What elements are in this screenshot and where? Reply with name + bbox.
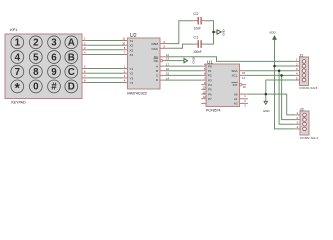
wire KBM to C2 (169, 21, 194, 44)
U1 left pin numbers (203, 62, 207, 99)
svg-text:P3: P3 (208, 78, 212, 82)
svg-text:MM74C922: MM74C922 (127, 90, 147, 95)
svg-text:9: 9 (51, 67, 57, 78)
wire U2 D to U1 P3 (165, 79, 202, 81)
svg-text:P2: P2 (208, 74, 212, 78)
svg-text:GND: GND (263, 109, 269, 113)
svg-text:D: D (68, 82, 75, 93)
wire SCL branch down to J2 pin3 (282, 75, 296, 119)
J1 pin circles (302, 60, 306, 82)
wire VDD rail down to J2 pin1 (275, 39, 296, 128)
svg-text:KBM: KBM (151, 42, 158, 46)
node VDD/J1 pin2 (273, 65, 276, 68)
ground symbol (263, 101, 269, 113)
U2 left pin stubs (123, 41, 128, 83)
svg-text:INT: INT (233, 83, 238, 87)
svg-text:P4: P4 (208, 83, 212, 87)
svg-text:6: 6 (51, 52, 57, 63)
svg-text:OSC: OSC (151, 47, 158, 51)
svg-text:VDD: VDD (269, 31, 276, 35)
svg-text:10nF: 10nF (194, 27, 201, 31)
svg-text:10: 10 (122, 41, 125, 45)
svg-text:P6: P6 (208, 92, 212, 96)
J2 pin stubs (295, 115, 300, 129)
svg-text:8: 8 (33, 67, 39, 78)
svg-text:7: 7 (15, 67, 21, 78)
node cap junction (212, 31, 215, 34)
wire keypad row3 to U2 X3 (88, 49, 123, 51)
svg-text:A: A (156, 64, 158, 68)
svg-text:3: 3 (51, 38, 57, 49)
svg-text:Y3: Y3 (130, 76, 134, 80)
svg-text:C: C (68, 67, 75, 78)
svg-text:B: B (68, 52, 75, 63)
svg-text:X2: X2 (130, 44, 134, 48)
wire keypad col2 to U2 Y2 (88, 72, 123, 74)
wire GND net: J1 pin5 / A0 / J2 pin4 (248, 80, 295, 115)
U2 pin name labels (130, 39, 134, 85)
wire U2 A to U1 P0 (165, 66, 202, 80)
wire U2 C to U1 P2 (165, 74, 202, 76)
J2 pin numbers (297, 111, 299, 129)
svg-text:A2: A2 (234, 102, 238, 106)
U1 left pin stubs (201, 66, 206, 103)
wire DA to J1 pin1 (167, 57, 295, 62)
wire keypad col3 to U2 Y3 (88, 77, 123, 79)
svg-text:2: 2 (33, 38, 39, 49)
wire keypad col4 to U2 Y4 (88, 82, 123, 84)
wire SDA branch down to J2 pin2 (279, 71, 295, 125)
connector J2 (300, 107, 319, 140)
svg-text:13: 13 (243, 85, 246, 89)
svg-text:P7: P7 (208, 97, 212, 101)
U1 INT overline (232, 82, 238, 84)
svg-text:PCF8574: PCF8574 (206, 108, 221, 112)
svg-text:B: B (156, 69, 158, 73)
svg-text:A: A (68, 38, 75, 49)
svg-text:1: 1 (15, 38, 21, 49)
keypad pin stubs group1 (pins 1-4) (82, 41, 88, 55)
svg-text:15: 15 (242, 71, 245, 75)
U1 pin name labels (208, 64, 212, 101)
svg-text:*: * (15, 81, 21, 96)
U2 left pin numbers 11,10,8,7 and 1,2,3,4 (122, 37, 126, 83)
svg-text:Y4: Y4 (130, 81, 134, 85)
svg-text:SCL: SCL (232, 74, 238, 78)
IC U2 MM74C922 keypad encoder body (127, 33, 160, 95)
keypad pin numbers 1-4 (84, 37, 86, 55)
svg-text:0: 0 (33, 82, 39, 93)
svg-text:P0: P0 (208, 64, 212, 68)
keypad buttons row 2 (11, 51, 78, 64)
J2 pin circles (303, 113, 307, 131)
svg-text:CONN-SIL4: CONN-SIL4 (300, 136, 318, 140)
power +5V symbol VDD (269, 31, 276, 40)
svg-text:A1: A1 (234, 97, 238, 101)
keypad buttons row 3 (11, 65, 78, 78)
U2 right pin stubs (160, 44, 169, 81)
svg-text:14: 14 (242, 76, 245, 80)
svg-text:X4: X4 (130, 53, 134, 57)
wire U2 B to U1 P1 (165, 70, 202, 72)
svg-text:KEYPAD: KEYPAD (11, 101, 26, 105)
connector J1 (299, 53, 318, 91)
svg-text:X1: X1 (130, 39, 134, 43)
svg-text:X3: X3 (130, 48, 134, 52)
capacitor C2 (193, 11, 205, 30)
wire VDD to J1 pin2 (275, 65, 295, 67)
svg-text:P1: P1 (208, 69, 212, 73)
J1 pin numbers (296, 58, 298, 81)
capacitor C1 (193, 34, 206, 54)
wire keypad row4 to U2 X4 (88, 54, 123, 56)
keypad buttons row 1 (11, 36, 78, 49)
U2 right pin numbers (164, 40, 170, 80)
ground flag (OE) (167, 60, 184, 62)
svg-text:CONN-SIL5: CONN-SIL5 (299, 86, 317, 90)
keypad pin numbers 5-8 (84, 65, 86, 83)
keypad buttons row 4 (11, 80, 78, 93)
svg-text:Y2: Y2 (130, 72, 134, 76)
svg-text:C2: C2 (193, 11, 199, 16)
wire keypad row1 to U2 X1 (88, 41, 123, 83)
wire keypad col1 to U2 Y1 (88, 68, 123, 70)
svg-text:GND: GND (191, 57, 195, 63)
U2 OE pin bubble (160, 59, 162, 61)
svg-text:P5: P5 (208, 88, 212, 92)
U2 OE overline (154, 58, 159, 60)
IC U1 PCF8574 I/O expander body (206, 59, 240, 112)
wire C2 right / C1 right to ground flag (206, 21, 217, 44)
wire SCL U1 to J1 pin4 (244, 75, 295, 119)
node GND/A0 junction (265, 93, 268, 96)
U1 INT pin bubble (240, 84, 242, 86)
svg-text:4: 4 (15, 52, 21, 63)
ground flag (caps) (217, 29, 226, 35)
wire OSC to C1 (169, 44, 194, 48)
svg-text:100nF: 100nF (193, 50, 202, 54)
wire SDA U1 to J1 pin3 (244, 71, 295, 125)
svg-text:10: 10 (203, 86, 206, 90)
svg-text:SDA: SDA (231, 69, 237, 73)
svg-text:#: # (51, 82, 57, 93)
keypad pin stubs group2 (pins 5-8) (82, 69, 88, 83)
svg-text:KP1: KP1 (10, 28, 17, 32)
svg-text:C1: C1 (193, 34, 199, 39)
svg-text:OE: OE (154, 59, 158, 63)
svg-text:GND: GND (222, 29, 226, 35)
svg-text:Y1: Y1 (130, 67, 134, 71)
U1 right pin numbers (242, 71, 246, 107)
keypad KP1 (5, 28, 82, 99)
J1 pin stubs (295, 61, 300, 80)
U1 right pin stubs (240, 71, 248, 104)
wire keypad row2 to U2 X2 (88, 44, 123, 46)
svg-text:12: 12 (203, 95, 206, 99)
svg-text:A0: A0 (234, 92, 238, 96)
node SCL branch (280, 74, 283, 77)
node SDA branch (278, 69, 281, 72)
svg-text:5: 5 (33, 52, 39, 63)
